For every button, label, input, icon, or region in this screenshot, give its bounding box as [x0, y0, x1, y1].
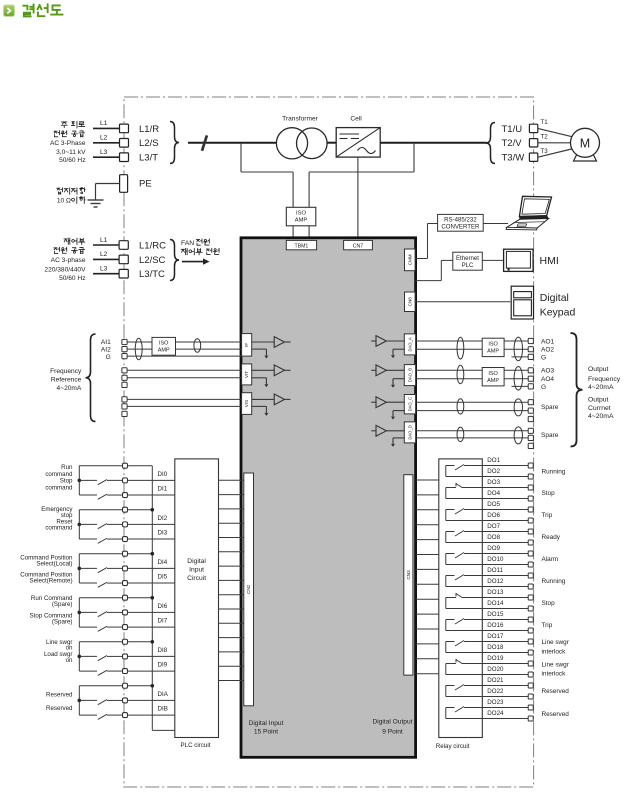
buffer amp VIT [252, 365, 291, 376]
svg-text:AO3: AO3 [541, 368, 555, 375]
DI group 5 labels [44, 639, 73, 664]
svg-text:L2: L2 [100, 135, 108, 142]
svg-text:DO8: DO8 [487, 534, 500, 541]
svg-text:CN3: CN3 [406, 570, 411, 580]
svg-text:AO4: AO4 [541, 376, 554, 383]
title text 결선도 [23, 4, 62, 16]
svg-text:DO20: DO20 [487, 666, 504, 673]
svg-text:50/60 Hz: 50/60 Hz [59, 275, 85, 282]
labels DO9/DO10 [487, 545, 504, 563]
buffer amp DAO_A [371, 336, 404, 347]
label DI8 [158, 647, 168, 654]
svg-text:10 Ω: 10 Ω [57, 198, 71, 205]
DI group 1 labels [45, 464, 73, 492]
svg-text:DO5: DO5 [487, 501, 500, 508]
connector IF [242, 334, 252, 357]
wires DI box to CN2 (15 lines) [219, 480, 244, 680]
svg-text:VIS: VIS [244, 400, 249, 407]
svg-text:Running: Running [542, 468, 566, 475]
terminals analog output group DAO_B [528, 368, 533, 389]
DI switch row DI0 [79, 480, 175, 485]
buffer amp IF [252, 337, 291, 348]
connector VIS [242, 393, 252, 415]
label PE [139, 179, 152, 190]
svg-text:PLC circuit: PLC circuit [181, 742, 211, 749]
svg-text:Digital: Digital [187, 558, 206, 565]
svg-text:Alarm: Alarm [542, 556, 559, 563]
svg-text:DI7: DI7 [158, 617, 168, 624]
label DI9 [158, 661, 168, 668]
svg-text:T2: T2 [541, 134, 549, 141]
svg-text:L1/R: L1/R [139, 124, 159, 135]
digital input circuit box [175, 459, 219, 738]
relay contact DO3/DO4 [446, 483, 483, 499]
labels analog output group DAO_C [541, 404, 559, 411]
terminal L2/S [120, 139, 129, 148]
svg-text:DO11: DO11 [487, 567, 503, 574]
terminals DO9/DO10 [528, 551, 533, 567]
label Output Currnet 4~20mA [588, 397, 614, 420]
connector DAO_A [404, 334, 415, 355]
connector DAO_B [404, 365, 415, 386]
svg-text:(Spare): (Spare) [52, 618, 73, 625]
ISO AMP analog input [152, 337, 176, 355]
laptop computer [506, 196, 551, 230]
svg-text:DO15: DO15 [487, 611, 504, 618]
svg-text:Input: Input [189, 567, 204, 574]
DI switch row DI6 [79, 612, 175, 617]
transformer [276, 115, 327, 159]
wires analog output group DAO_C [416, 402, 529, 410]
svg-text:PLC: PLC [462, 262, 474, 269]
svg-text:command: command [45, 525, 73, 532]
terminals analog input group 2 [122, 368, 127, 388]
terminal L3/TC [119, 269, 128, 278]
terminal L2/SC [119, 255, 128, 264]
DI switch row DI3 [79, 538, 175, 543]
right label pair 4 [542, 534, 561, 541]
wire control L3 [93, 266, 119, 274]
digital keypad [511, 286, 533, 319]
label Digital Input 15 Point [249, 720, 284, 736]
label Relay circuit [436, 743, 470, 750]
svg-text:CONVERTER: CONVERTER [441, 224, 480, 231]
label L2/SC [139, 255, 166, 266]
terminals DO15/DO16 [528, 617, 533, 633]
svg-text:T2/V: T2/V [502, 138, 523, 149]
twisted pair ellipse 1 [135, 338, 142, 360]
svg-text:L3: L3 [100, 149, 108, 156]
common bus vertical x152 [152, 466, 175, 731]
DI group 5 terminals [123, 639, 128, 673]
svg-text:T3: T3 [541, 148, 549, 155]
svg-text:DI9: DI9 [158, 661, 168, 668]
DI group 2 labels [41, 506, 73, 532]
wire L1 main input [93, 120, 120, 128]
svg-text:DI2: DI2 [158, 515, 168, 522]
right label pair 5 [542, 556, 559, 563]
DI switch row DI8 [79, 656, 175, 661]
relay contact DO23/DO24 [446, 707, 483, 719]
svg-text:Reserved: Reserved [46, 691, 73, 698]
svg-text:DO3: DO3 [487, 479, 500, 486]
svg-text:DO10: DO10 [487, 556, 504, 563]
wires DO7/DO8 to terminals [482, 532, 528, 543]
svg-text:Keypad: Keypad [540, 306, 576, 318]
svg-text:IF: IF [244, 343, 249, 347]
internal ground branch VIT [252, 378, 269, 388]
label HMI [540, 255, 559, 267]
DI switch row DI9 [79, 670, 175, 675]
terminals DO7/DO8 [528, 529, 533, 545]
DI group 6 left bus [78, 686, 82, 715]
labels DO5/DO6 [487, 501, 500, 519]
svg-text:DO9: DO9 [487, 545, 500, 552]
DI group 2 common wire [79, 509, 152, 511]
svg-text:T1: T1 [541, 119, 549, 126]
DI switch row DI2 [79, 524, 175, 529]
wires DO23/DO24 to terminals [482, 708, 528, 719]
svg-text:G: G [541, 354, 546, 361]
svg-text:Line swgr: Line swgr [542, 662, 570, 669]
svg-text:Line swgr: Line swgr [542, 639, 570, 646]
ground symbol [88, 200, 104, 207]
label DI0 [158, 471, 168, 478]
svg-text:interlock: interlock [542, 649, 567, 656]
relay contact DO13/DO14 [446, 593, 483, 609]
connector DAO_D [404, 422, 415, 443]
label DI6 [158, 603, 168, 610]
DI group 3 common wire [79, 553, 152, 555]
svg-text:Reference: Reference [51, 377, 82, 384]
terminals DO21/DO22 [528, 683, 533, 699]
wire CMM to converter [415, 224, 438, 259]
svg-text:L3/TC: L3/TC [139, 269, 165, 280]
svg-text:ISO: ISO [488, 342, 498, 348]
labels analog output group DAO_D [541, 432, 559, 439]
svg-text:L2/SC: L2/SC [139, 255, 166, 266]
junction common bus group 2 [151, 508, 155, 512]
svg-text:DI5: DI5 [158, 573, 168, 580]
terminals analog input group 3 [122, 397, 127, 417]
right label pair 11 [542, 688, 570, 695]
connector CN2 [244, 473, 254, 706]
wires DO5/DO6 to terminals [482, 510, 528, 521]
wire main bus L-side [188, 142, 277, 144]
connector CN8 [405, 292, 416, 312]
wire transformer to cell [327, 142, 336, 144]
svg-text:AC 3-phase: AC 3-phase [51, 257, 86, 264]
right label pair 9 [542, 639, 570, 655]
svg-text:AMP: AMP [158, 348, 170, 354]
right label pair 3 [542, 512, 553, 519]
wires DO1/DO2 to terminals [482, 466, 528, 477]
svg-text:DAO_B: DAO_B [407, 368, 412, 382]
labels DO17/DO18 [487, 633, 504, 651]
DI group 3 terminals [123, 551, 128, 585]
buffer amp DAO_D [371, 425, 404, 436]
svg-text:FAN: FAN [181, 240, 194, 247]
relay contact DO21/DO22 [446, 685, 483, 697]
svg-text:9 Point: 9 Point [382, 729, 403, 736]
right label pair 12 [542, 711, 570, 718]
terminal T2 [529, 139, 537, 147]
svg-text:Reserved: Reserved [542, 688, 570, 695]
svg-text:DO1: DO1 [487, 457, 500, 464]
DI switch row DI4 [79, 568, 175, 573]
wires DO11/DO12 to terminals [482, 576, 528, 587]
right label pair 1 [542, 468, 566, 475]
svg-text:Trip: Trip [542, 512, 553, 519]
svg-text:DI1: DI1 [158, 485, 168, 492]
twisted ellipses DAO_B [457, 365, 523, 390]
svg-text:L1: L1 [100, 120, 108, 127]
wire gray box to Ethernet PLC [416, 260, 453, 280]
buffer amp DAO_C [371, 397, 404, 408]
DI group 1 terminals [123, 463, 128, 497]
svg-text:TBM1: TBM1 [294, 244, 308, 250]
labels DO23/DO24 [487, 699, 504, 717]
label T3 small [541, 148, 549, 155]
svg-text:on: on [66, 657, 73, 664]
label Digital Output 9 Point [373, 719, 413, 736]
svg-text:Reserved: Reserved [46, 705, 73, 712]
svg-text:DO22: DO22 [487, 688, 504, 695]
svg-text:DI6: DI6 [158, 603, 168, 610]
terminals analog output group DAO_C [528, 400, 533, 422]
connector CMM [405, 249, 416, 271]
svg-text:L1/RC: L1/RC [139, 240, 166, 251]
svg-text:(Spare): (Spare) [52, 601, 73, 608]
internal ground branch IF [252, 349, 269, 359]
terminals DO3/DO4 [528, 485, 533, 501]
DI group 4 labels [30, 595, 74, 626]
svg-text:T1/U: T1/U [502, 124, 523, 135]
junction common bus group 4 [151, 596, 155, 600]
DI group 6 labels [46, 691, 73, 712]
svg-text:Output: Output [588, 366, 609, 373]
DI switch row DI7 [79, 626, 175, 631]
label T1/U [502, 124, 523, 135]
wires gray box to relay box (14 lines) [416, 480, 439, 674]
right label pair 10 [542, 662, 570, 678]
svg-text:AI1: AI1 [101, 339, 111, 346]
svg-text:50/60 Hz: 50/60 Hz [59, 157, 85, 164]
label T2 small [541, 134, 549, 141]
svg-text:DO24: DO24 [487, 710, 504, 717]
svg-text:Ready: Ready [542, 534, 561, 541]
svg-text:AMP: AMP [487, 349, 499, 355]
twisted ellipses DAO_A [457, 337, 523, 361]
labels DO1/DO2 [487, 457, 500, 475]
labels DO19/DO20 [487, 655, 504, 673]
label AC 3-phase / 220/380/440V / 50/60 Hz [44, 257, 86, 282]
svg-text:DI8: DI8 [158, 647, 168, 654]
junction common bus group 5 [151, 640, 155, 644]
terminals DO11/DO12 [528, 573, 533, 589]
svg-text:AMP: AMP [487, 378, 499, 384]
relay contact DO11/DO12 [446, 575, 483, 587]
svg-text:Stop: Stop [542, 490, 556, 497]
svg-text:DO13: DO13 [487, 589, 504, 596]
svg-text:Ethernet: Ethernet [456, 255, 479, 262]
relay contact DO9/DO10 [446, 553, 483, 565]
label FAN 전원 / 제어부 전원 [181, 239, 219, 255]
svg-text:DI0: DI0 [158, 471, 168, 478]
svg-text:L2/S: L2/S [139, 138, 159, 149]
wire L3 main input [93, 149, 120, 157]
wire CN8 to keypad [415, 301, 510, 303]
internal ground branch VIS [252, 406, 269, 416]
svg-text:G: G [106, 354, 111, 361]
svg-text:AO2: AO2 [541, 347, 554, 354]
wires analog group 3 [127, 399, 242, 406]
svg-text:DO6: DO6 [487, 512, 500, 519]
svg-text:220/380/440V: 220/380/440V [44, 267, 86, 274]
twisted ellipses DAO_D [457, 427, 523, 444]
svg-text:DO12: DO12 [487, 578, 504, 585]
brace main input [170, 122, 179, 164]
svg-text:Output: Output [588, 397, 609, 404]
motor M [571, 128, 600, 161]
DI group 4 left bus [78, 598, 82, 627]
label DI2 [158, 515, 168, 522]
wires analog output group DAO_D [416, 431, 529, 438]
label AC 3-Phase / 3,0~11 kV / 50/60 Hz [50, 140, 86, 164]
brace control input [170, 240, 179, 281]
svg-text:DO17: DO17 [487, 633, 504, 640]
wires AI1/AI2 through ISO AMP [127, 342, 242, 356]
wires ISO AMP to TBM1 [293, 226, 309, 239]
svg-text:Reserved: Reserved [542, 711, 570, 718]
terminal L3/T [120, 153, 129, 162]
terminal T3 [529, 153, 537, 161]
wires analog output group DAO_B [416, 370, 529, 386]
label block: main power korean text [54, 121, 85, 136]
svg-text:Stop: Stop [542, 600, 556, 607]
svg-text:Frequency: Frequency [50, 368, 82, 375]
terminals DO17/DO18 [528, 639, 533, 655]
svg-text:DO16: DO16 [487, 622, 504, 629]
svg-text:Select(Remote): Select(Remote) [30, 578, 73, 585]
relay contact DO1/DO2 [446, 465, 483, 477]
label DI1 [158, 485, 168, 492]
svg-text:4~20mA: 4~20mA [588, 384, 614, 391]
svg-text:Trip: Trip [542, 622, 553, 629]
labels DO13/DO14 [487, 589, 504, 607]
wire control L2 [93, 251, 119, 259]
label DI3 [158, 529, 168, 536]
connector CN7 [344, 240, 373, 249]
label Output Frequency 4~20mA [588, 366, 621, 391]
svg-text:Digital Output: Digital Output [373, 719, 413, 726]
DI group 3 labels [20, 554, 73, 584]
wires analog group 2 [127, 370, 242, 378]
svg-text:HMI: HMI [540, 255, 559, 267]
internal ground branch DAO_B [391, 379, 404, 388]
labels analog output group DAO_B [541, 368, 555, 391]
DI group 4 terminals [123, 595, 128, 629]
svg-text:4~20mA: 4~20mA [588, 413, 614, 420]
internal ground branch DAO_A [391, 349, 404, 358]
svg-text:Select(Local): Select(Local) [36, 560, 72, 567]
DI group 1 common wire [79, 465, 152, 467]
svg-text:interlock: interlock [542, 671, 567, 678]
svg-text:DO18: DO18 [487, 644, 504, 651]
svg-text:DI4: DI4 [158, 559, 168, 566]
svg-text:Spare: Spare [541, 404, 559, 411]
svg-text:command: command [45, 484, 73, 491]
svg-text:Digital Input: Digital Input [249, 720, 284, 727]
junction common bus group 6 [151, 684, 155, 688]
Ethernet PLC box [453, 252, 483, 270]
label L3/TC [139, 269, 165, 280]
svg-text:AO1: AO1 [541, 338, 555, 345]
label L1/RC [139, 240, 166, 251]
svg-text:Digital: Digital [540, 292, 569, 304]
svg-text:PE: PE [139, 179, 152, 190]
label T1 small [541, 119, 549, 126]
svg-text:DO19: DO19 [487, 655, 504, 662]
main drive unit (gray box) [241, 238, 416, 758]
labels DO15/DO16 [487, 611, 504, 629]
label block: control power korean [54, 238, 85, 253]
relay contact DO17/DO18 [446, 641, 483, 653]
ISO AMP output DAO_A [482, 338, 504, 356]
label DI7 [158, 617, 168, 624]
relay contact DO15/DO16 [446, 619, 483, 631]
svg-text:CN8: CN8 [407, 297, 412, 307]
arrow fan power [182, 258, 210, 264]
brace frequency reference [86, 334, 96, 422]
labels DO3/DO4 [487, 479, 500, 497]
svg-text:Stop: Stop [60, 477, 73, 484]
terminals DO19/DO20 [528, 661, 533, 677]
labels DO7/DO8 [487, 523, 500, 541]
svg-text:Circuit: Circuit [187, 575, 206, 582]
buffer amp VIS [252, 394, 291, 405]
brace outputs [571, 333, 583, 447]
svg-text:M: M [580, 136, 590, 150]
label T3/W [502, 153, 525, 164]
DI group 5 common wire [79, 641, 152, 643]
label DI5 [158, 573, 168, 580]
ISO AMP output DAO_B [482, 368, 504, 386]
wires DO9/DO10 to terminals [482, 554, 528, 565]
DI switch row DIA [79, 700, 175, 705]
DI group 6 terminals [123, 683, 128, 717]
svg-text:15 Point: 15 Point [254, 729, 278, 736]
connector TBM1 [286, 240, 316, 249]
svg-text:DAO_D: DAO_D [407, 425, 412, 439]
svg-text:ISO: ISO [159, 341, 169, 347]
right label pair 7 [542, 600, 556, 607]
terminal L1/RC [119, 241, 128, 250]
buffer amp DAO_B [371, 365, 404, 376]
svg-text:DIA: DIA [158, 691, 169, 698]
svg-text:CMM: CMM [407, 254, 412, 265]
label PLC circuit [181, 742, 211, 749]
terminals analog output group DAO_D [528, 428, 533, 448]
svg-text:ISO: ISO [488, 371, 498, 377]
svg-text:4~20mA: 4~20mA [57, 385, 82, 392]
DI group 2 left bus [78, 510, 82, 539]
twisted pair ellipse 2 [194, 339, 201, 353]
junction common bus group 3 [151, 552, 155, 556]
svg-text:Transformer: Transformer [282, 115, 318, 122]
wire L2 main input [93, 135, 120, 143]
terminals analog input group 1 [122, 339, 127, 358]
